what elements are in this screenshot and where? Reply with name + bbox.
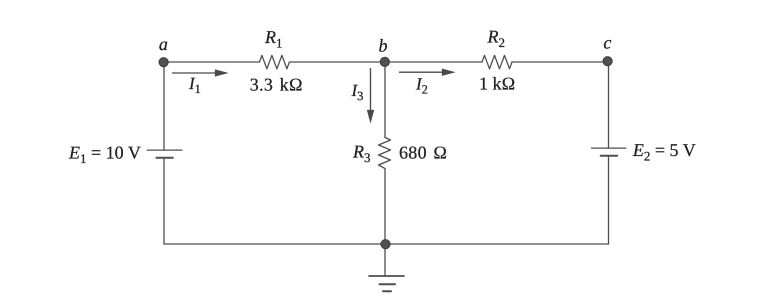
svg-text:I2: I2 (415, 75, 428, 97)
svg-text:I1: I1 (188, 74, 201, 96)
svg-text:R2: R2 (487, 26, 506, 50)
svg-text:b: b (379, 36, 388, 56)
svg-text:680 Ω: 680 Ω (399, 142, 447, 162)
svg-text:3.3 kΩ: 3.3 kΩ (250, 75, 303, 95)
svg-text:E1 = 10 V: E1 = 10 V (68, 143, 141, 167)
svg-text:R3: R3 (352, 142, 371, 166)
svg-text:a: a (159, 34, 168, 54)
svg-text:R1: R1 (264, 27, 283, 51)
svg-text:c: c (603, 33, 611, 53)
svg-text:E2 = 5 V: E2 = 5 V (632, 140, 696, 164)
svg-text:I3: I3 (351, 81, 364, 103)
svg-text:1 kΩ: 1 kΩ (479, 74, 515, 94)
